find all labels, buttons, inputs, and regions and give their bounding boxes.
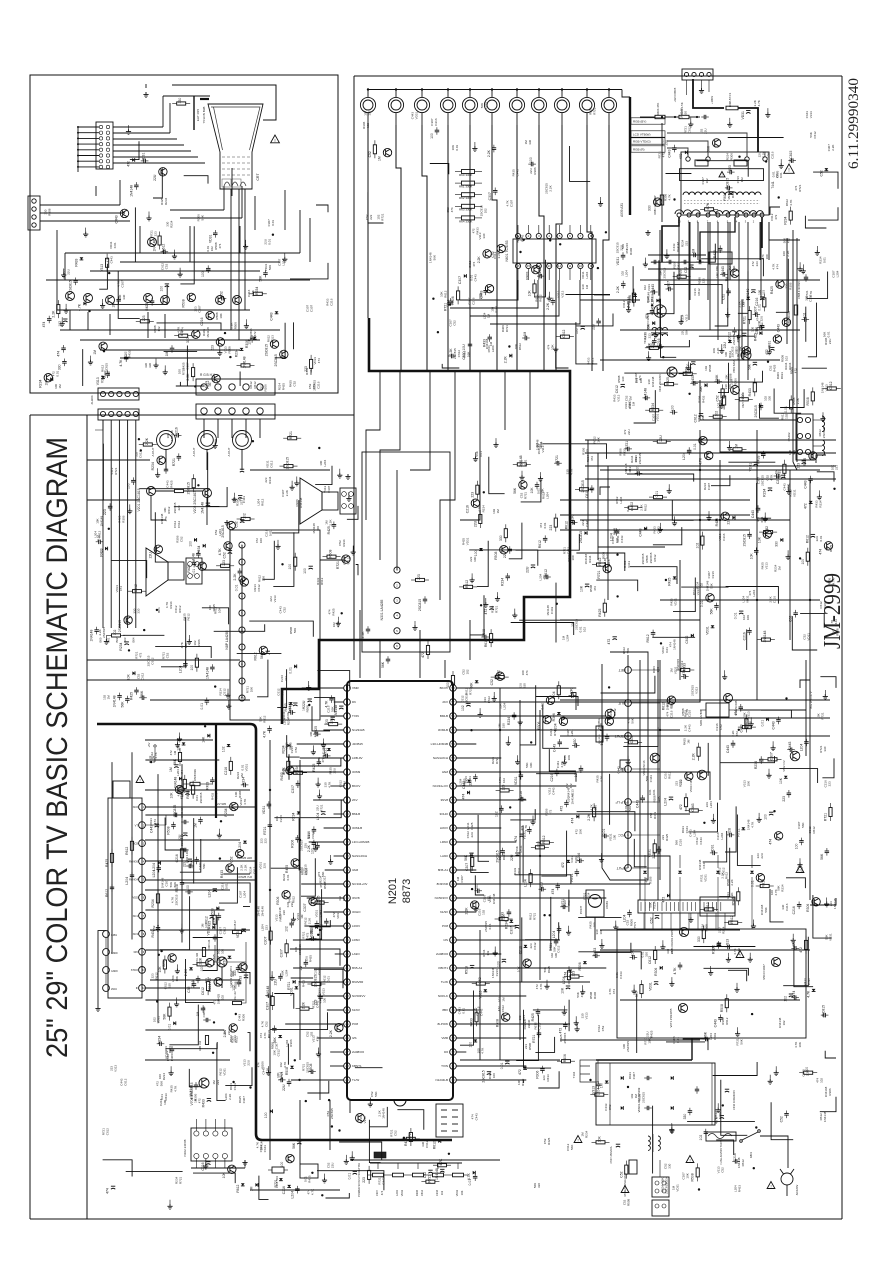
svg-text:R306: R306 <box>245 340 249 348</box>
svg-text:C307: C307 <box>165 879 169 887</box>
wire jack drop to bus <box>447 125 449 371</box>
ground audio1 <box>226 520 228 523</box>
capacitor <box>73 280 78 282</box>
wire routing <box>329 1100 331 1150</box>
svg-text:1M: 1M <box>240 773 244 778</box>
svg-text:R508: R508 <box>720 1004 724 1012</box>
wire from IC right pin <box>456 939 476 941</box>
transistor <box>157 456 165 464</box>
svg-text:C216: C216 <box>773 596 777 604</box>
svg-text:C612: C612 <box>124 1078 128 1086</box>
svg-text:22U: 22U <box>828 339 832 345</box>
wire <box>471 854 489 873</box>
svg-text:R721: R721 <box>495 757 499 765</box>
svg-text:223: 223 <box>828 781 832 786</box>
wire routing <box>600 929 740 931</box>
diode <box>295 986 299 989</box>
resistor <box>705 208 714 211</box>
svg-text:N102 24C08: N102 24C08 <box>183 1139 187 1156</box>
transistor <box>270 340 278 348</box>
wire <box>130 141 139 159</box>
svg-text:VT: VT <box>135 823 139 827</box>
svg-text:VD31: VD31 <box>514 776 518 785</box>
capacitor <box>669 796 673 798</box>
wire left vertical chain <box>131 752 133 939</box>
wire N102 top <box>195 1119 197 1131</box>
svg-text:C443: C443 <box>776 324 780 332</box>
svg-text:V533 2SC1S: V533 2SC1S <box>642 760 646 775</box>
capacitor <box>493 190 498 192</box>
capacitor on chain <box>130 874 134 876</box>
wire <box>726 587 779 604</box>
connector jack circle 8 <box>531 97 546 112</box>
svg-text:6.11.29990340: 6.11.29990340 <box>846 78 862 169</box>
svg-text:4.7K: 4.7K <box>539 984 543 990</box>
svg-text:C612: C612 <box>829 381 833 389</box>
capacitor on chain <box>180 882 184 884</box>
wire transformer pin drop <box>738 222 740 420</box>
wire <box>822 758 834 777</box>
svg-text:472: 472 <box>590 456 594 461</box>
capacitor <box>250 337 255 339</box>
wire <box>683 1039 708 1050</box>
wire from IC right pin <box>456 1065 526 1067</box>
capacitor <box>311 936 313 941</box>
svg-text:1M: 1M <box>778 566 782 571</box>
capacitor <box>125 698 130 700</box>
ground <box>494 947 496 951</box>
svg-text:V503 B612: V503 B612 <box>597 717 601 730</box>
connector XS4 pin <box>229 384 235 390</box>
capacitor <box>63 318 67 320</box>
svg-text:56K: 56K <box>163 1013 167 1020</box>
svg-text:22U: 22U <box>723 342 727 349</box>
svg-text:2SC815: 2SC815 <box>626 1041 630 1052</box>
wire routing <box>539 710 541 980</box>
wire <box>693 371 762 382</box>
svg-text:L204: L204 <box>619 496 623 503</box>
svg-text:23: 23 <box>345 994 349 998</box>
svg-text:R306: R306 <box>744 720 748 728</box>
svg-text:100: 100 <box>571 555 575 560</box>
transistor <box>559 717 567 725</box>
wire <box>761 710 791 718</box>
transistor <box>282 891 290 899</box>
svg-text:102: 102 <box>785 413 789 418</box>
cap C588 <box>804 276 808 278</box>
wire from IC left pin <box>309 841 344 843</box>
capacitor <box>728 191 732 193</box>
capacitor <box>170 1048 175 1050</box>
svg-text:100: 100 <box>765 254 769 259</box>
IC N601 bottom pin <box>567 263 572 268</box>
svg-text:330: 330 <box>178 98 182 104</box>
part above IC <box>426 646 429 655</box>
wire tuner ground chain <box>105 937 107 948</box>
capacitor <box>531 564 535 566</box>
wire N601 top pin <box>548 225 550 233</box>
diode <box>524 945 528 948</box>
svg-text:56K: 56K <box>513 487 517 494</box>
IC N301 chain line <box>396 470 398 570</box>
svg-text:10K: 10K <box>170 792 174 799</box>
svg-text:VD31: VD31 <box>675 1184 679 1192</box>
diode <box>576 815 579 819</box>
capacitor <box>207 1098 211 1100</box>
svg-text:C612: C612 <box>317 968 321 976</box>
capacitor <box>776 474 778 479</box>
svg-text:R612: R612 <box>234 1036 238 1044</box>
svg-text:R606 47K: R606 47K <box>656 103 660 116</box>
IC N601 bottom pin <box>536 263 541 268</box>
svg-text:R721: R721 <box>533 912 537 920</box>
svg-text:35: 35 <box>451 1008 455 1012</box>
connector XP201 pin <box>100 411 105 416</box>
capacitor <box>317 761 322 763</box>
diode <box>585 531 588 535</box>
wire <box>543 704 569 748</box>
svg-text:18: 18 <box>345 924 349 928</box>
svg-text:R425: R425 <box>404 1138 408 1146</box>
svg-text:V435 2SC1815: V435 2SC1815 <box>658 374 662 392</box>
svg-text:C216: C216 <box>175 854 179 862</box>
wire routing <box>350 1159 500 1161</box>
svg-text:4.7K: 4.7K <box>119 359 123 367</box>
wire <box>460 991 474 1046</box>
wire <box>301 858 315 896</box>
transistor V435 <box>667 367 677 377</box>
svg-text:R306: R306 <box>537 721 541 729</box>
svg-text:472: 472 <box>561 862 565 868</box>
ground <box>780 159 782 163</box>
svg-text:C612: C612 <box>685 635 689 643</box>
svg-text:R306: R306 <box>536 1070 540 1078</box>
capacitor <box>811 533 815 535</box>
svg-text:R721: R721 <box>324 748 328 756</box>
svg-text:C443: C443 <box>115 215 119 223</box>
svg-text:VD31: VD31 <box>649 982 653 991</box>
wire above IC <box>359 610 361 678</box>
svg-text:0.01: 0.01 <box>168 1024 172 1031</box>
svg-text:C443: C443 <box>480 1008 484 1016</box>
svg-text:L204: L204 <box>316 813 320 821</box>
capacitor <box>125 641 129 643</box>
connector XS801 <box>652 1177 669 1197</box>
svg-text:4.7K: 4.7K <box>736 336 740 342</box>
svg-text:R721: R721 <box>381 213 385 221</box>
svg-text:C216: C216 <box>792 906 796 914</box>
IC N102 pin bottom <box>203 1153 208 1158</box>
svg-text:C443: C443 <box>475 1113 479 1121</box>
IC N601 top pin <box>536 233 541 238</box>
IC N102 pin top <box>213 1131 218 1136</box>
transistor <box>543 715 551 723</box>
svg-text:R721: R721 <box>519 845 523 853</box>
wire XP4 down <box>245 419 247 438</box>
transistor <box>809 452 817 460</box>
wire <box>576 553 624 571</box>
wire right-bottom vertical <box>639 660 641 900</box>
wire routing <box>250 469 330 471</box>
svg-text:R306: R306 <box>649 876 653 884</box>
IC N301 parts <box>416 578 425 581</box>
svg-text:223: 223 <box>284 676 288 681</box>
svg-text:C216: C216 <box>435 1189 439 1196</box>
capacitor <box>440 1168 444 1170</box>
wire stair1 <box>366 372 380 520</box>
svg-text:223: 223 <box>216 1080 220 1085</box>
transistor <box>471 499 479 507</box>
capacitor <box>296 782 301 784</box>
diode <box>105 547 108 551</box>
wire N601 top pin <box>527 225 529 233</box>
wire from IC right pin <box>456 925 516 927</box>
wire <box>99 264 107 289</box>
IC N601 top pin <box>567 233 572 238</box>
svg-text:2SC815: 2SC815 <box>641 1092 645 1103</box>
wire <box>511 623 574 636</box>
svg-text:474: 474 <box>775 264 779 269</box>
svg-text:L204: L204 <box>624 270 628 277</box>
svg-text:330: 330 <box>573 738 577 744</box>
IC N601 top pin <box>515 233 520 238</box>
wire on CRT board <box>180 217 242 219</box>
wire yoke left <box>700 380 796 420</box>
IC N201A pin 2 <box>239 559 245 565</box>
svg-text:4.7K: 4.7K <box>789 200 793 206</box>
svg-text:BIG LYN +17V: BIG LYN +17V <box>809 691 813 708</box>
svg-text:4.7K: 4.7K <box>283 1062 287 1068</box>
svg-text:R234: R234 <box>255 287 259 295</box>
ground <box>668 484 670 488</box>
filter cap C910 <box>725 1088 729 1090</box>
capacitor <box>228 550 232 552</box>
transformer T441 outline <box>681 152 769 215</box>
IC N201 left pin 11 <box>344 825 351 832</box>
svg-text:474: 474 <box>792 450 796 455</box>
capacitor <box>768 487 772 489</box>
ground <box>277 540 279 544</box>
svg-text:C443: C443 <box>667 149 671 157</box>
svg-text:N201: N201 <box>387 878 399 904</box>
resistor <box>183 779 186 788</box>
IC N201 right pin 56 <box>450 713 457 720</box>
resistor <box>287 761 290 770</box>
diode <box>179 777 182 781</box>
svg-text:R612: R612 <box>187 613 191 621</box>
wire tuner pin5 out <box>145 879 256 881</box>
ground <box>548 292 550 296</box>
wire <box>534 260 545 297</box>
ground <box>63 269 65 273</box>
line filter coils L902 <box>648 1136 650 1150</box>
wire <box>820 1097 836 1112</box>
capacitor <box>626 447 628 452</box>
wire <box>704 968 749 975</box>
svg-text:10K: 10K <box>579 829 583 834</box>
svg-text:40: 40 <box>451 938 455 942</box>
wire on CRT board <box>90 270 260 272</box>
wire jack drop to bus <box>587 125 592 371</box>
svg-text:C612: C612 <box>134 584 138 592</box>
svg-text:R508: R508 <box>323 881 327 889</box>
svg-text:22U: 22U <box>760 853 764 859</box>
wire from IC right pin <box>456 757 501 759</box>
svg-text:223: 223 <box>701 278 705 283</box>
wire <box>521 480 541 502</box>
ground <box>517 755 519 759</box>
svg-text:C443: C443 <box>691 803 695 811</box>
IC N301 pin 1 <box>394 567 400 573</box>
warning power3 <box>574 1136 582 1143</box>
connector XP40 on top border <box>682 69 713 80</box>
svg-text:EHT R15: EHT R15 <box>196 109 200 122</box>
svg-text:VD31: VD31 <box>616 257 620 266</box>
svg-text:56K: 56K <box>467 352 471 357</box>
capacitor <box>289 922 294 924</box>
resistor ladder R614 <box>462 216 475 220</box>
svg-text:V313: V313 <box>685 314 689 321</box>
ground <box>245 319 247 323</box>
svg-text:C443: C443 <box>585 519 589 527</box>
svg-text:0.01: 0.01 <box>602 829 606 836</box>
capacitor <box>194 859 199 861</box>
wire on CRT board <box>40 212 125 214</box>
capacitor on chain <box>156 927 160 929</box>
svg-text:N301 LA4285: N301 LA4285 <box>380 600 384 621</box>
ground <box>717 1103 719 1107</box>
diode <box>227 744 231 747</box>
svg-text:10K: 10K <box>574 770 578 777</box>
wire corner bracket <box>816 455 826 463</box>
wire from IC left pin <box>307 897 344 899</box>
IC N601 bottom pin <box>557 263 562 268</box>
capacitor <box>793 946 795 951</box>
wire jack down <box>561 113 563 125</box>
wire from XP201 down <box>135 420 137 628</box>
svg-text:R433: R433 <box>164 1093 168 1101</box>
svg-text:R612: R612 <box>292 896 296 904</box>
wire routing <box>620 999 800 1001</box>
connector jack circle 4 <box>440 97 455 112</box>
svg-text:1N4148: 1N4148 <box>823 1111 827 1122</box>
IC N102 24C08 body <box>191 1128 232 1161</box>
wire <box>103 1160 133 1177</box>
IC N601 top pin <box>557 233 562 238</box>
wire <box>578 952 641 970</box>
svg-text:22U: 22U <box>670 949 674 955</box>
svg-text:C216: C216 <box>669 710 673 718</box>
svg-text:C443: C443 <box>804 480 808 488</box>
svg-text:4.7K: 4.7K <box>668 194 672 200</box>
wire routing <box>679 560 681 680</box>
wire N102 bottom <box>224 1159 226 1168</box>
transistor <box>239 963 247 971</box>
wire <box>397 1110 423 1130</box>
svg-text:R612: R612 <box>706 902 710 910</box>
svg-text:!: ! <box>577 1138 578 1143</box>
svg-text:RGB (R): RGB (R) <box>633 147 645 151</box>
wire routing <box>659 660 661 880</box>
capacitor <box>556 885 561 887</box>
svg-text:2.2K: 2.2K <box>184 968 188 976</box>
resistor <box>495 676 504 679</box>
svg-text:R G B H V: R G B H V <box>200 373 216 377</box>
svg-text:R508: R508 <box>835 628 839 636</box>
IC N201 left pin 26 <box>344 1035 351 1042</box>
ground <box>507 736 509 740</box>
svg-text:1N4148: 1N4148 <box>833 898 837 909</box>
wire from IC left pin <box>293 939 344 941</box>
IC N201A pin 5 <box>239 610 245 616</box>
svg-text:C612: C612 <box>201 987 205 995</box>
svg-text:0.01: 0.01 <box>500 1062 504 1069</box>
svg-text:C216: C216 <box>775 170 779 178</box>
svg-text:C216: C216 <box>329 298 333 306</box>
svg-text:0.01: 0.01 <box>234 584 238 591</box>
svg-text:VCC: VCC <box>618 833 626 837</box>
wire <box>664 284 722 304</box>
resistor <box>140 320 149 323</box>
box L447 <box>709 252 732 264</box>
svg-text:R721: R721 <box>289 431 293 439</box>
wire from pin header <box>78 126 99 128</box>
svg-text:L204: L204 <box>125 877 129 885</box>
wire jack down <box>586 113 588 125</box>
svg-text:2SC815: 2SC815 <box>665 1183 669 1194</box>
wire on CRT board <box>65 252 300 254</box>
wire <box>577 812 635 832</box>
svg-text:4.7K: 4.7K <box>78 303 82 311</box>
svg-text:22: 22 <box>345 980 349 984</box>
svg-text:2SC815: 2SC815 <box>313 975 317 987</box>
IC N301 pin 5 <box>394 628 400 634</box>
wire <box>306 889 322 939</box>
wire from IC right pin <box>456 1037 526 1039</box>
IC N201 right pin 30 <box>450 1077 457 1084</box>
wire <box>630 567 677 584</box>
ground <box>708 511 710 515</box>
resistor <box>533 284 536 293</box>
wire from IC right pin <box>456 1023 516 1025</box>
svg-text:C307: C307 <box>197 305 201 313</box>
svg-text:R612: R612 <box>661 702 665 710</box>
resistor <box>811 392 814 401</box>
wire right-middle vertical bundle <box>587 440 589 530</box>
wire <box>118 271 140 319</box>
svg-text:R508: R508 <box>329 550 333 558</box>
ground <box>479 708 481 712</box>
wire <box>287 735 300 757</box>
resistor R70B <box>178 753 181 762</box>
capacitor <box>141 696 143 701</box>
transistor V517 <box>724 694 733 703</box>
wire routing <box>709 222 711 330</box>
svg-text:330: 330 <box>537 1183 541 1188</box>
wire routing <box>659 230 661 330</box>
diode <box>509 354 512 358</box>
wire <box>651 244 716 263</box>
wire on CRT board <box>223 186 225 210</box>
svg-text:16: 16 <box>516 264 520 268</box>
svg-text:L204: L204 <box>800 744 804 752</box>
svg-text:V313: V313 <box>647 284 651 291</box>
wire <box>813 172 838 189</box>
ground <box>628 303 630 307</box>
capacitor <box>295 837 300 839</box>
wire routing <box>87 459 150 461</box>
svg-text:V313: V313 <box>584 1012 588 1019</box>
